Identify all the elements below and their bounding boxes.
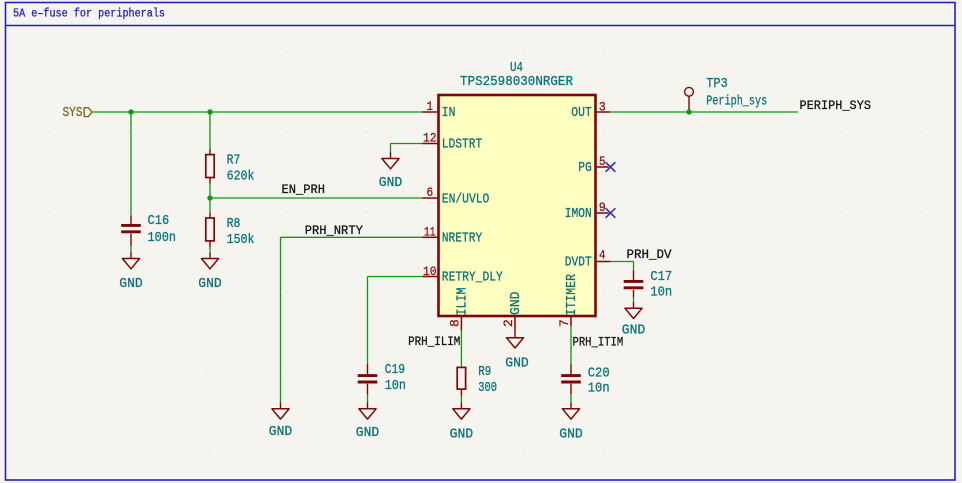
svg-text:GND: GND [119, 276, 143, 292]
svg-text:2: 2 [501, 319, 516, 327]
wire to C16 [130, 112, 132, 216]
wire R7 to junction [209, 184, 211, 199]
svg-text:GND: GND [356, 425, 380, 441]
svg-text:R9: R9 [478, 364, 491, 380]
pin 9 IMON of U4 [565, 200, 609, 222]
svg-text:TPS2598030NRGER: TPS2598030NRGER [460, 74, 574, 90]
capacitor C19 10n [358, 362, 406, 395]
resistor R7 620k [206, 149, 255, 184]
svg-text:C17: C17 [650, 269, 672, 285]
pin 5 PG of U4 [578, 154, 608, 176]
svg-text:10n: 10n [385, 378, 406, 394]
pin 3 OUT of U4 [571, 99, 610, 121]
svg-text:GND: GND [622, 323, 646, 339]
svg-text:PRH_ITIM: PRH_ITIM [573, 335, 624, 350]
svg-text:IMON: IMON [565, 206, 592, 222]
capacitor C16 100n [121, 213, 176, 246]
svg-text:PRH_ILIM: PRH_ILIM [408, 334, 460, 349]
pin 1 IN of U4 [423, 99, 456, 121]
svg-text:12: 12 [423, 131, 437, 146]
ground C17 [622, 302, 646, 339]
svg-text:ILIM: ILIM [455, 288, 471, 316]
svg-text:10n: 10n [588, 381, 610, 397]
wire R9 to ground [460, 396, 462, 403]
pin 8 ILIM of U4 [448, 288, 471, 331]
svg-text:GND: GND [559, 427, 583, 443]
svg-text:10n: 10n [650, 284, 672, 300]
svg-text:EN_PRH: EN_PRH [282, 182, 326, 197]
junction at C16 branch [128, 109, 133, 114]
no-connect X on pin 9 [606, 208, 616, 218]
wire NRETRY horizontal [281, 236, 423, 238]
svg-text:11: 11 [424, 225, 436, 240]
svg-text:NRETRY: NRETRY [442, 231, 483, 247]
pin 6 EN/UVLO of U4 [423, 185, 490, 207]
svg-text:3: 3 [599, 99, 606, 114]
svg-text:PRH_NRTY: PRH_NRTY [305, 223, 363, 238]
resistor R8 150k [206, 212, 255, 248]
svg-text:8: 8 [448, 319, 463, 327]
svg-text:GND: GND [505, 356, 529, 372]
svg-text:GND: GND [508, 292, 524, 316]
IC U4 TPS2598030NRGER body [439, 60, 596, 316]
wire RETRY_DLY [368, 277, 423, 365]
svg-text:10: 10 [423, 264, 437, 279]
ground C16 [119, 252, 143, 292]
ground C19 [356, 403, 380, 441]
capacitor C17 10n [624, 269, 673, 300]
svg-text:Periph_sys: Periph_sys [706, 94, 767, 110]
wire LDSTRT to ground [391, 144, 423, 153]
resistor R9 300 [457, 364, 497, 396]
no-connect X on pin 5 [606, 162, 616, 172]
svg-text:GND: GND [379, 175, 403, 191]
svg-text:EN/UVLO: EN/UVLO [442, 191, 490, 207]
svg-text:TP3: TP3 [706, 76, 728, 92]
svg-text:C16: C16 [148, 213, 170, 229]
svg-text:100n: 100n [148, 230, 177, 246]
svg-text:OUT: OUT [571, 105, 592, 121]
wire C20 to ground [570, 395, 572, 403]
test point TP3 [685, 76, 768, 110]
wire NRETRY vertical [280, 237, 282, 403]
svg-text:GND: GND [450, 427, 474, 443]
svg-text:4: 4 [599, 248, 606, 263]
svg-text:620k: 620k [227, 168, 255, 184]
wire EN_PRH [210, 197, 423, 199]
svg-text:GND: GND [269, 424, 293, 440]
ground pin 2 [505, 332, 529, 372]
pin 12 LDSTRT of U4 [423, 131, 483, 153]
ground C20 [559, 403, 583, 443]
svg-text:9: 9 [599, 200, 606, 215]
ground R9 [450, 403, 474, 443]
junction test point [686, 109, 691, 114]
svg-text:DVDT: DVDT [565, 255, 592, 271]
svg-text:RETRY_DLY: RETRY_DLY [442, 270, 503, 286]
svg-text:6: 6 [426, 185, 433, 200]
svg-text:7: 7 [557, 319, 572, 327]
ground LDSTRT [379, 152, 403, 191]
wire SYS horizontal [92, 111, 423, 113]
svg-text:PERIPH_SYS: PERIPH_SYS [800, 98, 872, 113]
wire PRH_ITIM [570, 326, 572, 364]
wire C17 to ground [633, 297, 635, 302]
wire PRH_DV [611, 262, 634, 271]
pin 7 ITIMER of U4 [557, 274, 580, 327]
wire C16 to ground [130, 246, 132, 253]
svg-text:PG: PG [578, 160, 592, 176]
svg-text:1: 1 [427, 99, 434, 114]
pin 10 RETRY_DLY of U4 [423, 264, 504, 286]
svg-text:LDSTRT: LDSTRT [442, 137, 483, 153]
wire OUT to PERIPH_SYS [610, 111, 798, 113]
svg-text:IN: IN [442, 105, 456, 121]
svg-text:SYS: SYS [63, 105, 83, 121]
capacitor C20 10n [561, 364, 609, 397]
svg-text:ITIMER: ITIMER [564, 274, 580, 316]
svg-text:150k: 150k [227, 232, 255, 248]
svg-text:GND: GND [198, 276, 222, 292]
wire to R7 [209, 112, 211, 149]
pin 2 GND of U4 [501, 292, 524, 332]
svg-text:5: 5 [599, 154, 606, 169]
wire R8 to ground [209, 247, 211, 253]
svg-text:C20: C20 [588, 366, 610, 382]
global label SYS [63, 105, 92, 121]
wire C19 to ground [367, 395, 369, 403]
svg-text:R8: R8 [227, 216, 241, 232]
wire PRH_ILIM [460, 331, 462, 367]
svg-text:R7: R7 [227, 152, 241, 168]
svg-text:300: 300 [478, 380, 497, 396]
wire junction to R8 [209, 198, 211, 212]
svg-text:PRH_DV: PRH_DV [627, 247, 672, 262]
svg-text:5A e–fuse for peripherals: 5A e–fuse for peripherals [13, 8, 165, 21]
pin 11 NRETRY of U4 [423, 225, 483, 247]
svg-text:C19: C19 [385, 362, 405, 378]
ground R8 [198, 252, 222, 292]
pin 4 DVDT of U4 [565, 248, 611, 271]
ground NRETRY [269, 403, 293, 440]
junction at R7 branch [207, 109, 212, 114]
junction EN_PRH [207, 195, 212, 200]
